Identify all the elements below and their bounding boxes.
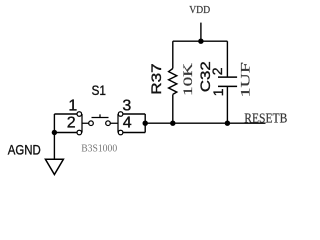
ground AGND symbol triangle (45, 159, 63, 174)
svg-text:VDD: VDD (189, 4, 210, 16)
pin 2 terminal circle (77, 130, 82, 135)
switch S1 left common wire (53, 114, 55, 159)
resistor R37 body (169, 69, 177, 95)
junction dot resistor bottom (170, 121, 175, 126)
svg-text:B3S1000: B3S1000 (81, 143, 117, 154)
wire resistor bottom lead (172, 94, 174, 123)
pin 1 terminal circle (77, 112, 82, 117)
switch actuator bar (92, 114, 109, 117)
svg-text:1: 1 (210, 88, 226, 96)
capacitor C32 bottom plate (218, 85, 237, 87)
junction dot switch output (143, 121, 148, 126)
wire switch pin1 top line (54, 113, 77, 115)
svg-text:1UF: 1UF (237, 62, 252, 97)
wire switch pin4 bottom line (123, 132, 145, 134)
wire switch right edge (144, 114, 146, 133)
wire switch pin2 bottom line (54, 132, 77, 134)
svg-text:C32: C32 (198, 61, 213, 92)
wire left bracket bar (82, 114, 89, 133)
svg-text:RESETB: RESETB (244, 110, 287, 125)
wire capacitor bottom lead (226, 86, 228, 123)
wire right bracket bar (110, 114, 118, 133)
svg-text:S1: S1 (92, 82, 107, 98)
svg-text:R37: R37 (149, 63, 164, 95)
capacitor C32 top plate (218, 76, 237, 78)
wire capacitor top lead (226, 41, 228, 77)
wire switch pin3 top line (123, 113, 145, 115)
svg-text:2: 2 (67, 115, 76, 132)
svg-text:2: 2 (209, 67, 225, 75)
wire bottom rail to RESETB (145, 122, 265, 124)
wire top rail (173, 40, 228, 42)
switch left contact circle (89, 121, 94, 126)
pin 3 terminal circle (118, 112, 123, 117)
svg-text:10K: 10K (180, 62, 195, 96)
wire VDD stem (200, 23, 202, 42)
pin 4 terminal circle (118, 130, 123, 135)
junction dot capacitor bottom (225, 121, 230, 126)
junction dot at VDD rail (198, 39, 203, 44)
svg-text:AGND: AGND (8, 142, 41, 158)
svg-text:4: 4 (123, 114, 132, 131)
wire resistor top lead (172, 41, 174, 68)
svg-text:3: 3 (122, 98, 131, 115)
junction dot AGND branch (52, 130, 57, 135)
svg-text:1: 1 (68, 98, 77, 115)
switch right contact circle (106, 121, 111, 126)
